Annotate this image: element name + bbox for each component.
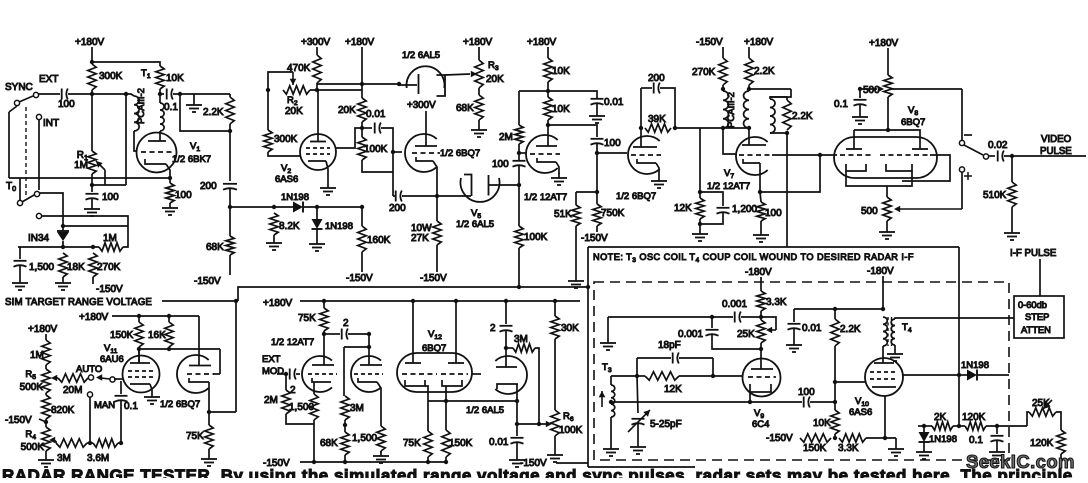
capacitor 200 (coupling): [200, 181, 237, 192]
wire 75K v12 bottom: [427, 457, 429, 462]
wire 1M to top rail: [123, 226, 128, 247]
tube V2 6AS6: [300, 90, 336, 183]
resistor 100 (V7 cathode): [757, 202, 782, 221]
svg-text:16K: 16K: [148, 330, 166, 341]
transformer T1 primary winding: [134, 96, 139, 131]
wire i-f feed vertical: [958, 247, 960, 375]
node V11b cathode: [207, 410, 211, 414]
node 300K line crossing: [90, 92, 94, 96]
wire common cap stem: [120, 381, 122, 394]
wire T1 secondary to plate: [159, 131, 161, 141]
wire note box top: [588, 246, 959, 248]
tube V3 1/2 12AT7: [526, 127, 560, 174]
node MAN junction: [88, 441, 92, 445]
wire osc cathode line: [611, 401, 750, 403]
node 20K top: [360, 82, 364, 86]
svg-text:68K: 68K: [320, 438, 338, 449]
ground 500 bottom: [879, 227, 895, 239]
resistor 470K: [287, 55, 321, 83]
resistor 150K (V11): [110, 322, 143, 347]
label -150V (27K): [420, 273, 447, 284]
wire common to grid: [114, 378, 123, 380]
tube V12 6BQ7: [397, 353, 472, 392]
wire to 0.02: [989, 155, 995, 157]
svg-text:2: 2: [290, 385, 296, 396]
wire 8.2K to gnd: [273, 235, 275, 238]
wire 0.1 down: [120, 400, 122, 443]
wire T4 sec bottom: [894, 345, 896, 349]
wire 0.001b bottom: [712, 334, 761, 349]
wire mod -150V rail: [300, 461, 446, 463]
wire 3M-3.6M link: [87, 442, 93, 444]
wire +300V: [316, 47, 318, 55]
svg-text:1N198: 1N198: [325, 221, 353, 232]
svg-text:SIM TARGET RANGE VOLTAGE: SIM TARGET RANGE VOLTAGE: [5, 297, 152, 308]
wire -150V bus lead: [556, 462, 588, 464]
wire 2M bottom: [286, 414, 314, 424]
capacitor 0.001 (a): [722, 299, 747, 323]
label -150V (R4): [5, 415, 32, 426]
resistor 150K (horizontal): [800, 434, 831, 454]
label -150V (160K): [346, 273, 373, 284]
svg-text:1M: 1M: [74, 160, 88, 171]
wire R4 to gnd: [45, 451, 47, 455]
wire 820K to R4: [45, 419, 47, 427]
wire 25K left: [1027, 412, 1029, 426]
svg-text:+300V: +300V: [407, 100, 436, 111]
wire 12K left lead: [637, 375, 645, 377]
node R6 wiper line: [537, 422, 541, 426]
svg-text:160K: 160K: [367, 235, 391, 246]
node 12K bottom: [698, 222, 702, 226]
wire 3.6M to 0.1: [118, 442, 121, 444]
label plus: [964, 172, 972, 180]
label 1/2 6AL5 (det): [466, 405, 504, 416]
wire mod plate drop: [323, 331, 325, 365]
potentiometer 25K (out): [1029, 398, 1056, 416]
wire box bottom: [770, 132, 787, 134]
transformer T4 right winding: [891, 319, 895, 345]
label 1/2 6BQ7 (V4): [616, 191, 656, 202]
wire grid leak: [92, 184, 126, 186]
diode IN34: [28, 224, 69, 247]
svg-text:-150V: -150V: [5, 415, 32, 426]
capacitor 2 (det): [490, 323, 513, 334]
svg-text:150K: 150K: [803, 443, 827, 454]
wire 2.2K top lead: [834, 309, 836, 319]
wire 10K to node: [159, 89, 161, 103]
wire box top: [770, 96, 787, 98]
svg-text:-150V: -150V: [194, 276, 221, 287]
wire tank left drop: [636, 358, 638, 376]
svg-text:1M: 1M: [30, 350, 44, 361]
wire 500 to plate node: [887, 97, 889, 130]
node grid tap: [391, 150, 395, 154]
svg-text:12K: 12K: [664, 384, 682, 395]
power label +300V (V2): [301, 37, 331, 48]
svg-text:500: 500: [863, 85, 880, 96]
wire INT contact down: [38, 120, 40, 190]
ground T1: [186, 100, 202, 112]
svg-text:+180V: +180V: [463, 37, 493, 48]
wire 160K bottom: [361, 252, 363, 272]
wire 270K to -150V: [92, 277, 94, 284]
svg-text:10K: 10K: [552, 104, 570, 115]
wire T2 top link: [749, 88, 791, 90]
wire cap left: [362, 127, 372, 129]
node 75K rail: [426, 460, 430, 464]
wire grid V9: [713, 375, 743, 377]
node V1 cathode: [168, 176, 172, 180]
resistor 3M (det): [513, 334, 535, 352]
svg-text:-180V: -180V: [867, 266, 894, 277]
node 0.1 right: [178, 92, 182, 96]
wire T3 top: [610, 376, 612, 385]
node T1 secondary top: [158, 92, 162, 96]
label SYNC: [5, 82, 33, 93]
diode 1N198 (clamp): [919, 426, 958, 447]
wire S2 upper contact: [39, 193, 63, 224]
svg-text:MAN: MAN: [94, 400, 115, 411]
label EXT: [39, 74, 58, 85]
svg-text:-150V: -150V: [346, 273, 373, 284]
wire +180V to R3: [478, 47, 480, 60]
svg-text:INT: INT: [43, 118, 59, 129]
label T4: [902, 322, 912, 334]
tube 1/2 6BQ7 (follower): [405, 134, 440, 196]
svg-text:PCAIII-2: PCAIII-2: [136, 88, 147, 124]
svg-text:150K: 150K: [449, 438, 473, 449]
wire 0.1 to 2.2K: [173, 93, 230, 95]
svg-text:0.01: 0.01: [366, 109, 386, 120]
wire cap2a left: [324, 333, 340, 335]
svg-text:100K: 100K: [559, 425, 583, 436]
svg-text:75K: 75K: [403, 438, 421, 449]
wire damping top: [786, 97, 788, 100]
wire 2.2K bottom: [748, 85, 750, 91]
wire 1500a bottom: [313, 420, 315, 462]
wire det cap gnd: [516, 442, 518, 455]
svg-text:1,500: 1,500: [352, 433, 377, 444]
power label +180V (V8): [869, 38, 899, 49]
resistor 75K (mod): [298, 308, 328, 331]
svg-text:3M: 3M: [514, 334, 528, 345]
label V11: [104, 343, 118, 355]
wire det cap2 to plate: [505, 330, 507, 348]
svg-text:2M: 2M: [264, 395, 278, 406]
svg-text:750K: 750K: [601, 208, 625, 219]
potentiometer 500 (bottom): [861, 197, 891, 221]
svg-text:6C4: 6C4: [752, 419, 769, 430]
wire +180V to 10K: [547, 47, 549, 58]
resistor 1M (horizontal): [99, 233, 123, 251]
svg-text:30K: 30K: [561, 323, 579, 334]
capacitor 0.01 (det): [489, 437, 524, 448]
wire rail to plate2: [198, 316, 200, 365]
label VIDEO: [1041, 134, 1072, 145]
wire +300V to plate: [425, 111, 427, 146]
power label +180V (V1 plate supply): [75, 37, 105, 48]
label 6AU6: [100, 354, 124, 365]
wire 0.1 left: [160, 93, 164, 95]
wire cathode to 500 bottom: [886, 186, 888, 197]
resistor 10K (T1): [156, 66, 184, 89]
ground 1500b: [373, 451, 389, 463]
wire R3 bottom: [478, 88, 480, 95]
svg-text:39K: 39K: [648, 114, 666, 125]
wire 470K bottom: [316, 83, 318, 90]
wire 2.2K to grid node: [834, 346, 836, 402]
svg-text:2.2K: 2.2K: [840, 324, 861, 335]
ground V3 cathode: [551, 173, 567, 185]
tube mod-a 1/2 12AT7: [302, 356, 337, 394]
wire 0.1 to gnd: [996, 440, 998, 447]
resistor 68K (V1): [206, 236, 234, 255]
label 1/2 6BQ7 (follower): [440, 148, 480, 159]
node V7 cathode: [758, 190, 762, 194]
svg-text:20K: 20K: [486, 74, 504, 85]
tube V11b 1/2 6BQ7: [177, 355, 220, 412]
ground det cap: [509, 455, 525, 467]
wire diode out: [977, 374, 1009, 376]
svg-text:0.1: 0.1: [124, 401, 138, 412]
resistor 68K (R3): [456, 95, 483, 120]
svg-text:1N198: 1N198: [281, 192, 309, 203]
ground R1 bypass: [84, 204, 100, 216]
svg-text:820K: 820K: [51, 405, 75, 416]
wire 27K bottom: [436, 245, 438, 272]
label -150V (68K): [194, 276, 221, 287]
label I-F PULSE: [1010, 248, 1057, 259]
svg-text:500K: 500K: [21, 442, 45, 453]
wire gnd stem osc: [607, 317, 609, 338]
resistor 150K (V12): [442, 430, 473, 457]
wire ground stem (T1): [193, 94, 195, 100]
wire sync common: [8, 112, 10, 178]
svg-text:3.6M: 3.6M: [87, 453, 109, 464]
wire 150K to plate: [138, 347, 140, 363]
svg-text:100K: 100K: [364, 144, 388, 155]
node 12K top: [698, 190, 702, 194]
resistor 16K: [148, 322, 173, 347]
capacitor 200 (to V5): [389, 191, 406, 215]
svg-text:25K: 25K: [737, 329, 755, 340]
node 2.2K mixer top: [833, 307, 837, 311]
resistor 1,500 (mod-b): [352, 426, 385, 451]
wire V11 rail: [112, 315, 199, 317]
svg-text:20K: 20K: [285, 106, 303, 117]
svg-text:EXT: EXT: [39, 74, 58, 85]
ground V10 cathode: [888, 444, 904, 456]
svg-text:PCAIII-2: PCAIII-2: [726, 92, 737, 128]
label V5: [471, 208, 481, 220]
ground 75K: [201, 454, 217, 466]
label V12: [428, 329, 442, 341]
tube V8 cathodes: [846, 164, 912, 186]
resistor 120K (shunt): [1030, 430, 1065, 454]
label T3: [602, 362, 612, 374]
label I-F PULSE box lead: [1039, 259, 1041, 296]
wire T3 bottom: [610, 417, 612, 444]
svg-text:+180V: +180V: [79, 312, 109, 323]
node 1500a rail: [312, 460, 316, 464]
node 0.1 bottom: [119, 441, 123, 445]
resistor 12K (V7 grid): [674, 198, 704, 219]
wire 2.2K bottom: [229, 124, 231, 131]
svg-text:1,500: 1,500: [29, 262, 54, 273]
svg-text:1/2 6BQ7: 1/2 6BQ7: [616, 191, 656, 202]
ground 1N198: [309, 239, 325, 251]
diode 1N198 (series): [281, 192, 309, 213]
capacitor 100 (V5 to grid): [492, 159, 526, 170]
ground 68K (R3): [471, 125, 487, 137]
wire video out: [1004, 155, 1086, 157]
coil T3: [611, 385, 615, 417]
watermark SeekIC.com: [966, 451, 1075, 472]
svg-text:8.2K: 8.2K: [279, 221, 300, 232]
wire S2 common up: [19, 178, 21, 200]
svg-text:18pF: 18pF: [658, 340, 681, 351]
wire -150V to 270K: [722, 47, 724, 58]
svg-text:0.01: 0.01: [802, 323, 822, 334]
label 1/2 6AL5 (V5): [456, 219, 494, 230]
svg-text:STEP: STEP: [1025, 312, 1049, 322]
node detector line: [444, 399, 448, 403]
resistor 20K: [338, 98, 366, 122]
svg-text:68K: 68K: [206, 242, 224, 253]
500 bottom wiper: [894, 206, 962, 213]
label V10: [855, 396, 869, 408]
node 150K rail: [444, 460, 448, 464]
svg-text:1/2 6AL5: 1/2 6AL5: [402, 50, 440, 61]
svg-text:1/2 6BQ7: 1/2 6BQ7: [160, 399, 200, 410]
wire 510K bottom: [1011, 207, 1013, 228]
wire 18K to ground: [62, 277, 64, 278]
wire 18pF left: [637, 357, 671, 359]
wire 3M det right: [535, 348, 539, 424]
label V2: [281, 163, 291, 175]
resistor 18K: [59, 253, 85, 277]
svg-text:-150V: -150V: [696, 37, 723, 48]
resistor 12K (osc): [645, 372, 682, 395]
node 3M-68K: [343, 423, 347, 427]
wire 3.3K bottom: [760, 311, 762, 317]
svg-text:270K: 270K: [692, 67, 716, 78]
wire T1 loop: [180, 94, 228, 131]
wire 100K to bus: [518, 248, 520, 287]
wire 12K to gnd: [699, 219, 701, 229]
wire 75K bottom: [208, 449, 210, 454]
switch common: [110, 377, 115, 382]
label 6BQ7 (V8): [901, 117, 925, 128]
label 6BQ7 (V12): [422, 343, 446, 354]
wire decouple: [519, 91, 597, 98]
R6 wiper arrow: [546, 421, 552, 428]
capacitor 0.1 (T1): [164, 89, 178, 114]
wire diode line: [230, 206, 293, 208]
node det line join: [515, 399, 519, 403]
node cathode node: [883, 436, 887, 440]
node 160K top: [360, 205, 364, 209]
wire V2 plate line: [317, 83, 399, 85]
svg-text:200: 200: [200, 181, 217, 192]
wire 100 to ground: [169, 203, 171, 204]
switch contact INT: [36, 114, 41, 119]
resistor 510K: [983, 182, 1016, 207]
wire 25K wiper loop: [761, 317, 776, 330]
capacitor 5-25pF (variable): [628, 410, 682, 432]
wire 12K up: [699, 128, 701, 192]
switch blade (output): [964, 145, 983, 155]
wire 120K shunt bottom: [1060, 454, 1062, 461]
potentiometer R6 100K: [551, 410, 583, 436]
wire -180V to 3.3K: [760, 277, 762, 291]
wire V12 plate b: [455, 301, 457, 363]
svg-text:500: 500: [861, 206, 878, 217]
svg-text:6BQ7: 6BQ7: [901, 117, 925, 128]
wire cathode a drop: [425, 386, 428, 431]
node R2/plate: [315, 88, 319, 92]
wire mixer rail: [794, 308, 883, 310]
node tube2 plate: [367, 332, 371, 336]
wire 51K long drop: [575, 226, 577, 276]
potentiometer R3 20K: [475, 60, 504, 88]
node 3M det tap: [504, 346, 508, 350]
svg-text:0.001: 0.001: [678, 329, 703, 340]
ground V2 cathode: [320, 183, 336, 195]
wire R1 wiper: [104, 170, 106, 185]
arrow into 500 top: [878, 86, 884, 93]
wire +180V rail to 10K: [92, 62, 160, 66]
switch gang dashed link: [25, 107, 27, 196]
tube V4 1/2 6BQ7: [628, 128, 661, 176]
wire 0.01 to gnd: [793, 328, 795, 340]
capacitor 100 (osc out): [798, 387, 815, 408]
wire +180V to 500: [887, 48, 889, 75]
svg-text:+180V: +180V: [869, 38, 899, 49]
svg-text:1/2 6BK7: 1/2 6BK7: [172, 154, 211, 165]
resistor 1,500 (mod-a): [289, 394, 318, 420]
svg-text:-150V: -150V: [581, 233, 608, 244]
resistor 2M (V3 grid): [499, 125, 523, 144]
25K out wiper: [1043, 400, 1052, 409]
wire R1 bottom to cap: [91, 174, 93, 192]
wire 2M stem top: [518, 91, 520, 125]
node V10 grid: [833, 380, 837, 384]
wire input to grid: [296, 373, 300, 375]
wire sim bus vertical: [587, 287, 589, 467]
node 16K top: [167, 314, 171, 318]
resistor 2.2K (V1 plate): [203, 97, 234, 124]
svg-text:2.2K: 2.2K: [203, 107, 224, 118]
wire mod-b grid drop: [343, 347, 345, 396]
svg-text:+180V: +180V: [28, 324, 58, 335]
label NOTE: [593, 252, 914, 264]
power label +180V (mod rail): [263, 298, 293, 309]
ground 0.01: [589, 111, 605, 123]
ground clamp: [916, 447, 932, 459]
wire V12 plate a: [412, 301, 414, 363]
tube V9 6C4: [743, 359, 781, 397]
capacitor 0.1 (V8): [834, 89, 867, 110]
wire MAN drop: [89, 397, 91, 443]
label V9: [754, 408, 764, 420]
wire grid entry V10: [835, 381, 866, 383]
capacitor 1,200: [717, 204, 758, 215]
resistor 39K: [645, 114, 671, 132]
label 1/2 12AT7 (V7): [707, 181, 750, 192]
potentiometer R4 500K: [21, 427, 51, 453]
